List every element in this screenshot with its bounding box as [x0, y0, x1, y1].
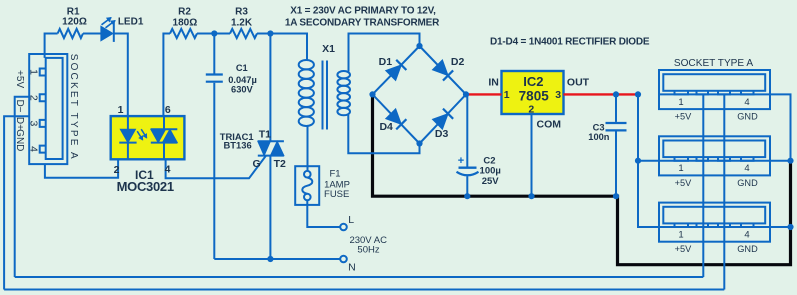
svg-text:D+: D+ — [14, 117, 25, 130]
svg-text:OUT: OUT — [567, 77, 590, 89]
svg-text:1: 1 — [678, 163, 683, 174]
svg-text:SOCKET TYPE A: SOCKET TYPE A — [68, 54, 79, 161]
svg-text:4: 4 — [744, 97, 749, 108]
svg-text:1.2K: 1.2K — [231, 17, 253, 28]
svg-text:+5V: +5V — [675, 178, 692, 188]
svg-text:GND: GND — [737, 178, 758, 188]
svg-text:X1 = 230V AC PRIMARY TO 12V,: X1 = 230V AC PRIMARY TO 12V, — [290, 5, 436, 16]
svg-text:100µ: 100µ — [480, 166, 501, 177]
svg-text:1: 1 — [678, 230, 683, 241]
svg-text:1: 1 — [118, 104, 124, 116]
svg-text:IC2: IC2 — [523, 74, 543, 89]
svg-text:+5V: +5V — [14, 70, 25, 88]
svg-text:C3: C3 — [593, 122, 605, 132]
svg-text:6: 6 — [165, 104, 171, 116]
svg-text:IN: IN — [488, 77, 499, 89]
svg-text:N: N — [348, 262, 356, 274]
svg-text:FUSE: FUSE — [324, 189, 349, 200]
svg-text:D2: D2 — [451, 56, 465, 68]
svg-text:2: 2 — [28, 95, 40, 101]
svg-text:SOCKET TYPE A: SOCKET TYPE A — [674, 58, 754, 69]
svg-text:GND: GND — [737, 112, 758, 122]
svg-text:GND: GND — [737, 244, 758, 254]
svg-text:3: 3 — [28, 120, 40, 126]
svg-text:D1: D1 — [379, 56, 393, 68]
svg-text:+5V: +5V — [675, 112, 692, 122]
svg-text:F1: F1 — [329, 169, 340, 180]
svg-text:X1: X1 — [322, 43, 335, 55]
svg-text:D4: D4 — [379, 121, 393, 133]
svg-text:1: 1 — [678, 97, 683, 108]
svg-text:+: + — [458, 155, 464, 167]
svg-text:4: 4 — [744, 230, 749, 241]
svg-text:2: 2 — [114, 164, 120, 176]
svg-text:4: 4 — [744, 163, 749, 174]
svg-text:120Ω: 120Ω — [62, 17, 87, 28]
svg-text:180Ω: 180Ω — [173, 17, 198, 28]
svg-text:BT136: BT136 — [224, 139, 252, 150]
svg-text:R2: R2 — [178, 7, 191, 18]
svg-text:T2: T2 — [274, 158, 286, 170]
svg-text:LED1: LED1 — [118, 16, 144, 27]
svg-text:D3: D3 — [435, 128, 449, 140]
svg-text:4: 4 — [165, 164, 171, 176]
svg-text:C1: C1 — [236, 63, 248, 73]
svg-text:1A SECONDARY TRANSFORMER: 1A SECONDARY TRANSFORMER — [285, 17, 440, 28]
svg-text:MOC3021: MOC3021 — [117, 179, 174, 194]
svg-text:1: 1 — [28, 69, 40, 75]
svg-text:630V: 630V — [231, 84, 254, 94]
svg-text:100n: 100n — [588, 132, 610, 142]
svg-text:50Hz: 50Hz — [357, 245, 379, 256]
svg-text:D1-D4 = 1N4001 RECTIFIER DIODE: D1-D4 = 1N4001 RECTIFIER DIODE — [490, 37, 650, 48]
svg-text:D−: D− — [14, 99, 25, 112]
svg-text:T1: T1 — [259, 128, 271, 140]
svg-text:25V: 25V — [482, 176, 500, 187]
svg-text:COM: COM — [537, 119, 562, 131]
svg-text:1: 1 — [504, 89, 510, 101]
svg-text:G: G — [253, 158, 261, 170]
svg-text:L: L — [348, 214, 354, 226]
svg-text:R3: R3 — [235, 7, 248, 18]
svg-text:7805: 7805 — [519, 88, 550, 103]
svg-text:3: 3 — [555, 89, 561, 101]
svg-text:2: 2 — [528, 104, 534, 116]
svg-text:+5V: +5V — [675, 244, 692, 254]
svg-text:4: 4 — [28, 146, 40, 152]
svg-text:GND: GND — [14, 129, 25, 151]
